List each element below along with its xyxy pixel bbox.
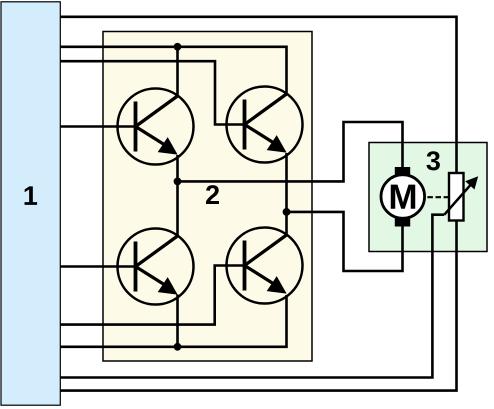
wire A: block1 to Q2 collector rail: [61, 47, 287, 96]
wire Q1 collector lead: [176, 47, 179, 98]
node dot mid-right: [283, 208, 291, 216]
wire: block1 to pot wiper: [61, 215, 445, 378]
block 3 motor unit box: [369, 143, 487, 252]
wire: block1 to potentiometer bottom: [61, 221, 457, 391]
wire: block1 to Q3 base: [61, 265, 138, 268]
wire mid-left node to motor top: [178, 122, 403, 181]
block 2 H-bridge box: [103, 32, 312, 362]
motor M: [381, 167, 425, 227]
potentiometer R1: [444, 173, 478, 221]
wire B: block1 to Q2 base: [61, 61, 247, 124]
transistor Q4: [227, 228, 303, 304]
wire right branch Q2 emitter to Q4 collector: [285, 153, 288, 237]
node dot top rail: [174, 43, 182, 51]
transistor Q2: [227, 87, 303, 163]
transistor Q1: [118, 89, 194, 165]
wire: block1 to Q1 base: [61, 125, 138, 128]
wire E: block1 to Q4 base: [61, 266, 247, 325]
node dot bottom rail: [174, 343, 182, 351]
wire bottom rail: block1 to Q3/Q4 emitters: [61, 295, 287, 347]
mechanical link dashed: [427, 196, 448, 198]
transistor Q3: [118, 229, 194, 305]
wire left branch Q1 emitter to Q3 collector: [176, 155, 179, 238]
node dot mid-left: [174, 178, 182, 186]
wire supply top: block1 to potentiometer top: [61, 17, 457, 174]
wire Q3 emitter lead to bottom rail: [176, 295, 179, 347]
block 1 control unit: [1, 2, 60, 405]
wire mid-right node to motor bottom: [287, 212, 403, 271]
